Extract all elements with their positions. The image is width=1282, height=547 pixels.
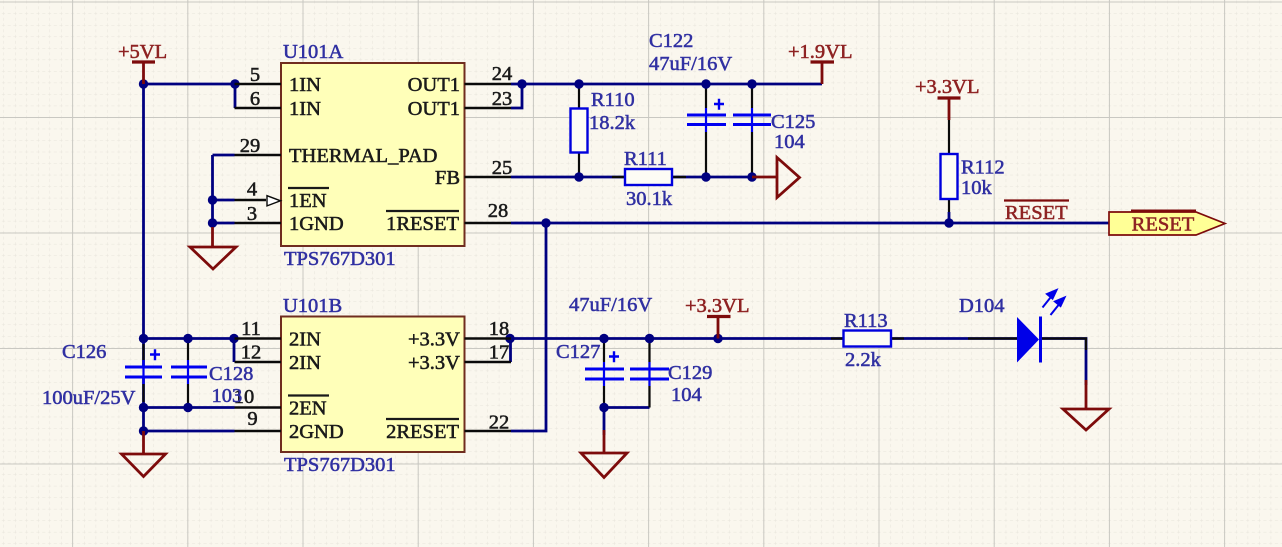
svg-text:1IN: 1IN (289, 74, 321, 96)
resistor R111 (624, 148, 673, 210)
overbar 1RESET (386, 210, 459, 212)
C129 leads (648, 339, 650, 408)
svg-text:22: 22 (489, 412, 510, 434)
svg-text:TPS767D301: TPS767D301 (284, 454, 396, 476)
svg-text:U101A: U101A (283, 41, 344, 63)
power +1.9VL (811, 62, 835, 84)
junction +5VL (139, 79, 148, 88)
ground left rail (122, 431, 166, 477)
svg-text:C126: C126 (62, 341, 106, 363)
wire FB right of R111 (672, 176, 752, 179)
wire R112 bottom (948, 212, 951, 223)
svg-text:R110: R110 (591, 89, 635, 111)
svg-text:1GND: 1GND (289, 213, 344, 235)
svg-text:2.2k: 2.2k (845, 349, 882, 371)
U101A pin numbers (240, 63, 513, 225)
svg-text:47uF/16V: 47uF/16V (649, 53, 732, 75)
svg-text:30.1k: 30.1k (626, 188, 673, 210)
junction C122 bottom (701, 172, 710, 181)
wire pin17 jog (509, 339, 512, 363)
junction C127 top (599, 334, 608, 343)
svg-text:RESET: RESET (1005, 202, 1068, 224)
R112 leads (948, 120, 950, 212)
C126 leads (142, 344, 144, 402)
svg-text:12: 12 (241, 342, 262, 364)
junction C125 bottom (747, 172, 756, 181)
R111 leads (612, 176, 686, 178)
svg-text:28: 28 (488, 200, 509, 222)
svg-text:47uF/16V: 47uF/16V (569, 294, 652, 316)
power +3.3VL bottom (707, 317, 731, 339)
LED arrow 1 (1043, 290, 1057, 308)
svg-text:+3.3V: +3.3V (408, 352, 460, 374)
capacitor C129 (630, 362, 712, 406)
svg-text:D104: D104 (959, 295, 1005, 317)
svg-text:1RESET: 1RESET (386, 213, 459, 235)
LED triangle (1017, 317, 1039, 363)
wire LED cathode to corner (1040, 339, 1086, 386)
svg-text:+3.3V: +3.3V (408, 329, 460, 351)
wire 2RESET vertical (511, 223, 546, 431)
ground under LED (1063, 380, 1109, 430)
junction C127 bottom (599, 403, 608, 412)
svg-text:R112: R112 (961, 157, 1005, 179)
svg-text:+1.9VL: +1.9VL (788, 41, 853, 63)
resistor R113 (844, 310, 892, 371)
wire left vertical rail upper (142, 84, 145, 366)
C125 leads (751, 84, 753, 177)
svg-text:25: 25 (492, 157, 513, 179)
svg-text:C127: C127 (556, 341, 600, 363)
junction C126 top (139, 334, 148, 343)
svg-text:C128: C128 (209, 363, 253, 385)
wire 1GND (213, 222, 235, 225)
ground under 1GND (190, 227, 236, 269)
ground under C127 (581, 430, 627, 478)
junction 1EN (208, 195, 217, 204)
svg-text:5: 5 (250, 64, 260, 86)
overbar 2RESET (386, 418, 459, 420)
capacitor C127 (556, 294, 652, 386)
svg-text:1IN: 1IN (289, 98, 321, 120)
svg-text:FB: FB (435, 167, 460, 189)
C122 leads (705, 84, 707, 177)
svg-text:RESET: RESET (1132, 214, 1195, 236)
junction 2RESET rail (541, 218, 550, 227)
wire +5VL rail top horizontal (144, 83, 235, 86)
svg-text:104: 104 (671, 384, 702, 406)
svg-text:THERMAL_PAD: THERMAL_PAD (289, 145, 437, 167)
wire pin29 horizontal (213, 154, 235, 157)
LED leads (968, 339, 1086, 351)
wire 1EN (213, 199, 235, 202)
junction pin18/17 (505, 334, 514, 343)
svg-text:R113: R113 (844, 310, 888, 332)
U101A pin names (289, 74, 460, 235)
junction R112 bottom (944, 218, 953, 227)
svg-text:2GND: 2GND (289, 421, 344, 443)
svg-text:6: 6 (250, 88, 260, 110)
svg-text:18: 18 (489, 318, 510, 340)
svg-text:100uF/25V: 100uF/25V (42, 387, 136, 409)
power +5VL (132, 62, 155, 84)
svg-text:10k: 10k (961, 177, 993, 199)
svg-text:+3.3VL: +3.3VL (685, 295, 750, 317)
overbar 1EN (288, 187, 329, 189)
overbar 2EN (288, 394, 329, 396)
wire 2GND (144, 430, 235, 433)
svg-text:TPS767D301: TPS767D301 (284, 248, 396, 270)
svg-text:9: 9 (247, 408, 257, 430)
junction 1GND (208, 218, 217, 227)
wire OUT1 top (511, 83, 822, 86)
junction C122 top (701, 79, 710, 88)
wire C127 gnd stem (603, 408, 606, 436)
junction pin5/6 (230, 79, 239, 88)
junction C125 top (747, 79, 756, 88)
C128 leads (187, 339, 189, 408)
svg-text:2IN: 2IN (289, 329, 321, 351)
svg-text:C122: C122 (649, 30, 693, 52)
capacitor C128 (171, 360, 253, 407)
junction C128 top (183, 334, 192, 343)
LED arrow 2 (1051, 298, 1065, 316)
junction C129 top (645, 334, 654, 343)
IC U101B body (TPS767D301 regulator B) (281, 317, 465, 453)
svg-text:11: 11 (241, 318, 261, 340)
svg-text:29: 29 (240, 135, 261, 157)
junction +3.3VL bottom (713, 334, 722, 343)
U101B pin names (289, 329, 460, 444)
wire FB left (511, 176, 625, 179)
wire RESET rail (511, 222, 1110, 225)
junction R110 bottom (574, 172, 583, 181)
junction C128 bottom (183, 403, 192, 412)
capacitor C122 (649, 30, 732, 132)
wire C127-C129 bottom link (604, 406, 650, 409)
pin 4 1EN input arrow (267, 196, 281, 206)
svg-text:+5VL: +5VL (118, 41, 167, 63)
svg-text:23: 23 (492, 88, 513, 110)
svg-text:OUT1: OUT1 (408, 98, 460, 120)
resistor R110 (571, 89, 636, 153)
junction C126 mid (139, 403, 148, 412)
net label RESET (1004, 201, 1069, 225)
wire left vertical rail lower (142, 377, 145, 431)
wire pin29 to 1EN/1GND vertical (211, 155, 214, 223)
svg-text:4: 4 (247, 179, 257, 201)
svg-text:24: 24 (492, 63, 513, 85)
svg-text:2RESET: 2RESET (386, 421, 459, 443)
U101B pin numbers (234, 318, 510, 434)
svg-text:103: 103 (212, 385, 243, 407)
R110 leads (578, 84, 580, 177)
wire 2IN rail left (144, 337, 235, 340)
capacitor C125 (733, 108, 815, 153)
U101B pins (235, 339, 512, 432)
svg-text:+3.3VL: +3.3VL (915, 76, 980, 98)
svg-text:C125: C125 (771, 111, 815, 133)
C127 leads (603, 339, 605, 408)
wire pin12 jog (233, 339, 236, 363)
wire +3.3V rail (511, 337, 844, 340)
capacitor C126 (42, 341, 162, 409)
svg-text:17: 17 (489, 342, 510, 364)
wire 2EN (144, 406, 235, 409)
svg-text:3: 3 (247, 203, 257, 225)
svg-text:1EN: 1EN (289, 190, 327, 212)
svg-text:18.2k: 18.2k (589, 112, 636, 134)
svg-text:R111: R111 (624, 148, 667, 170)
wire pin6 jog (234, 84, 237, 108)
IC U101A body (TPS767D301 regulator A) (281, 63, 465, 246)
wire R113 to LED (891, 337, 1017, 340)
svg-text:2EN: 2EN (289, 398, 327, 420)
svg-text:U101B: U101B (283, 295, 342, 317)
svg-text:2IN: 2IN (289, 352, 321, 374)
svg-text:C129: C129 (668, 362, 712, 384)
junction 2GND (139, 426, 148, 435)
power +3.3VL top (938, 98, 961, 120)
port RESET (1109, 211, 1225, 236)
svg-text:104: 104 (774, 131, 805, 153)
junction R110 top (574, 79, 583, 88)
R113 leads (831, 337, 904, 339)
wire pin23 jog (511, 84, 522, 108)
junction pin11/12 (229, 334, 238, 343)
resistor R112 (941, 154, 1005, 199)
LED cathode bar (1039, 317, 1042, 363)
junction pin24/23 (517, 79, 526, 88)
U101A pins left (235, 84, 512, 223)
svg-text:OUT1: OUT1 (408, 74, 460, 96)
ground arrow FB net (752, 158, 800, 198)
